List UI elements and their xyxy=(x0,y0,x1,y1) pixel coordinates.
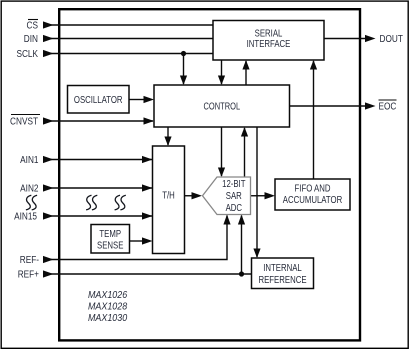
wire SCLK xyxy=(46,53,213,55)
svg-text:INTERFACE: INTERFACE xyxy=(247,38,291,49)
svg-text:MAX1028: MAX1028 xyxy=(88,301,128,313)
wire AIN1 xyxy=(46,159,152,161)
wire CONTROL to SERIAL INTERFACE xyxy=(245,61,247,85)
svg-text:REF-: REF- xyxy=(20,254,39,265)
wire SERIAL INTERFACE to CONTROL xyxy=(221,60,223,84)
svg-text:FIFO AND: FIFO AND xyxy=(295,183,331,194)
wire DOUT xyxy=(324,38,366,40)
wire TEMP SENSE to T/H xyxy=(130,240,144,242)
arrowhead REF- into SAR ADC xyxy=(223,215,230,225)
wire SAR ADC to FIFO xyxy=(251,195,267,197)
block INTERNAL REFERENCE xyxy=(252,258,314,289)
pin label CNVST (overlined) xyxy=(10,115,40,127)
part numbers MAX1026 MAX1028 MAX1030 xyxy=(88,289,128,324)
svg-text:SAR: SAR xyxy=(226,190,242,201)
svg-text:REFERENCE: REFERENCE xyxy=(258,274,306,285)
svg-text:CS: CS xyxy=(27,20,38,31)
svg-text:INTERNAL: INTERNAL xyxy=(263,262,302,273)
wire OSCILLATOR to CONTROL xyxy=(129,99,145,101)
wire EOC xyxy=(290,105,367,107)
wire AIN2 xyxy=(46,187,152,189)
block OSCILLATOR xyxy=(68,86,130,114)
wire T/H to SAR ADC xyxy=(185,195,193,197)
channel-break squiggle on AIN bus (right) xyxy=(115,195,126,210)
svg-text:AIN2: AIN2 xyxy=(20,183,38,194)
wire CS xyxy=(46,24,213,26)
svg-text:T/H: T/H xyxy=(162,190,175,201)
svg-text:DIN: DIN xyxy=(24,33,38,44)
svg-text:MAX1026: MAX1026 xyxy=(88,289,128,301)
wire CONTROL to T/H xyxy=(167,127,169,145)
arrowhead DIN pin xyxy=(43,35,54,42)
block 12-BIT SAR ADC (pentagon) xyxy=(203,177,251,215)
svg-text:CNVST: CNVST xyxy=(10,116,38,127)
svg-text:ACCUMULATOR: ACCUMULATOR xyxy=(283,194,343,205)
arrowhead SCLK pin xyxy=(43,50,54,57)
svg-text:SCLK: SCLK xyxy=(16,48,38,59)
junction dot on SCLK xyxy=(181,51,186,56)
pin label CS (overlined) xyxy=(27,20,38,31)
svg-text:ADC: ADC xyxy=(226,202,243,213)
wire REF+ xyxy=(46,273,252,275)
junction dot on REF+ xyxy=(239,271,244,276)
wire REF+ dot to SAR ADC xyxy=(241,216,243,275)
wire CONTROL to SAR ADC xyxy=(221,127,223,176)
svg-text:AIN15: AIN15 xyxy=(14,211,37,222)
arrowhead CNVST into CONTROL xyxy=(144,117,155,124)
svg-text:12-BIT: 12-BIT xyxy=(222,178,246,189)
svg-text:AIN1: AIN1 xyxy=(20,154,38,165)
wire DIN xyxy=(46,38,213,40)
block CONTROL xyxy=(154,85,290,127)
svg-text:DOUT: DOUT xyxy=(380,33,404,44)
arrowhead CS pin xyxy=(43,21,54,28)
svg-text:SERIAL: SERIAL xyxy=(255,28,283,39)
wire FIFO to SERIAL INTERFACE xyxy=(313,61,315,179)
block FIFO AND ACCUMULATOR xyxy=(275,179,350,210)
arrowhead CNVST pin xyxy=(43,117,54,124)
svg-text:EOC: EOC xyxy=(379,101,397,112)
svg-text:MAX1030: MAX1030 xyxy=(88,312,128,324)
svg-text:OSCILLATOR: OSCILLATOR xyxy=(74,94,123,105)
wire CONTROL to INTERNAL REFERENCE xyxy=(256,127,258,257)
svg-text:TEMP: TEMP xyxy=(99,228,121,239)
svg-text:CONTROL: CONTROL xyxy=(203,100,240,111)
wire AIN15 xyxy=(46,215,152,217)
chip outline box xyxy=(59,9,360,340)
wire REF- xyxy=(46,216,227,260)
pin label EOC (overlined) xyxy=(379,100,397,112)
svg-text:SENSE: SENSE xyxy=(97,240,123,251)
block SERIAL INTERFACE xyxy=(213,21,324,61)
block TEMP SENSE xyxy=(91,225,130,254)
wire CNVST xyxy=(46,120,153,122)
block T/H xyxy=(153,146,185,254)
wire SAR ADC to CONTROL xyxy=(244,128,246,177)
svg-text:REF+: REF+ xyxy=(18,269,39,280)
wire SCLK to CONTROL xyxy=(183,54,185,85)
channel-break squiggle below AIN2 xyxy=(26,195,37,210)
channel-break squiggle on AIN bus (left) xyxy=(86,195,97,210)
